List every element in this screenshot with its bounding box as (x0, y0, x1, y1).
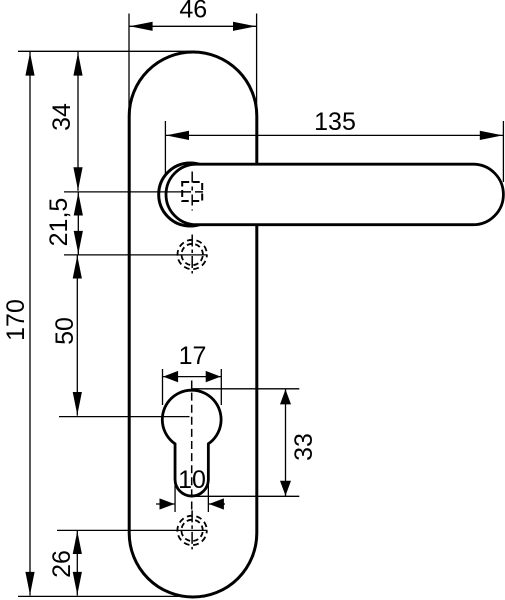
dimension 21,5 label (45, 198, 73, 247)
dimension 10 extension lines (175, 480, 208, 512)
dimension 21,5 line and arrows (74, 192, 83, 255)
backplate outline (129, 52, 257, 597)
dimension 26 line and arrows (73, 530, 82, 595)
dimension 46 label (179, 0, 207, 24)
cylinder centerline extension (left) (59, 416, 190, 418)
dimension 135 label (314, 108, 356, 136)
svg-text:21,5: 21,5 (45, 198, 73, 247)
spindle horizontal centerline dashes (183, 191, 207, 193)
cylinder hole (euro profile) (162, 390, 221, 496)
spindle vertical centerline (191, 172, 193, 211)
dimension 33 label (290, 433, 318, 461)
svg-text:50: 50 (51, 317, 79, 345)
dimension 10 line segments and arrows (156, 498, 225, 509)
top extension line at plate top (18, 50, 195, 52)
dimension 135 extension lines (165, 121, 503, 182)
svg-text:135: 135 (314, 108, 356, 136)
spindle square (dashed hidden edge) (182, 182, 202, 201)
dimension 33 line and arrows (280, 389, 291, 497)
dimension 10 label (178, 466, 206, 494)
dimension 26 label (48, 550, 76, 578)
dimension 33 extension lines (191, 389, 299, 497)
svg-text:34: 34 (48, 103, 76, 131)
dimension 170 label (2, 299, 30, 341)
svg-text:10: 10 (178, 466, 206, 494)
lower screw centerline extension (left) (57, 529, 207, 531)
lever grip capsule (166, 164, 503, 225)
cylinder hole vertical centerline (191, 381, 193, 512)
handle neck circle (159, 163, 222, 226)
dimension 46 extension lines (129, 14, 257, 111)
dimension 17 line and arrows (163, 371, 222, 382)
svg-text:46: 46 (179, 0, 207, 24)
dimension 50 line and arrows (73, 255, 82, 416)
bottom extension line at plate bottom (18, 595, 195, 597)
dimension 170 line and arrows (25, 52, 34, 596)
dimension 17 label (179, 342, 207, 370)
svg-text:17: 17 (179, 342, 207, 370)
dimension 50 label (51, 317, 79, 345)
dimension 17 extension lines (163, 369, 222, 405)
lower screw hole (177, 516, 206, 545)
svg-text:33: 33 (290, 433, 318, 461)
upper screw hole vertical centerline (191, 235, 193, 274)
upper screw centerline extension (left) (64, 254, 207, 256)
dimension 135 line and arrows (165, 131, 503, 140)
lower screw hole vertical centerline (191, 510, 193, 549)
svg-text:26: 26 (48, 550, 76, 578)
dimension 46 line and arrows (129, 22, 257, 31)
upper screw hole (178, 240, 207, 269)
handle centerline extension (left) (64, 191, 183, 193)
svg-text:170: 170 (2, 299, 30, 341)
dimension 34 line and arrows (73, 52, 82, 191)
dimension 34 label (48, 103, 76, 131)
